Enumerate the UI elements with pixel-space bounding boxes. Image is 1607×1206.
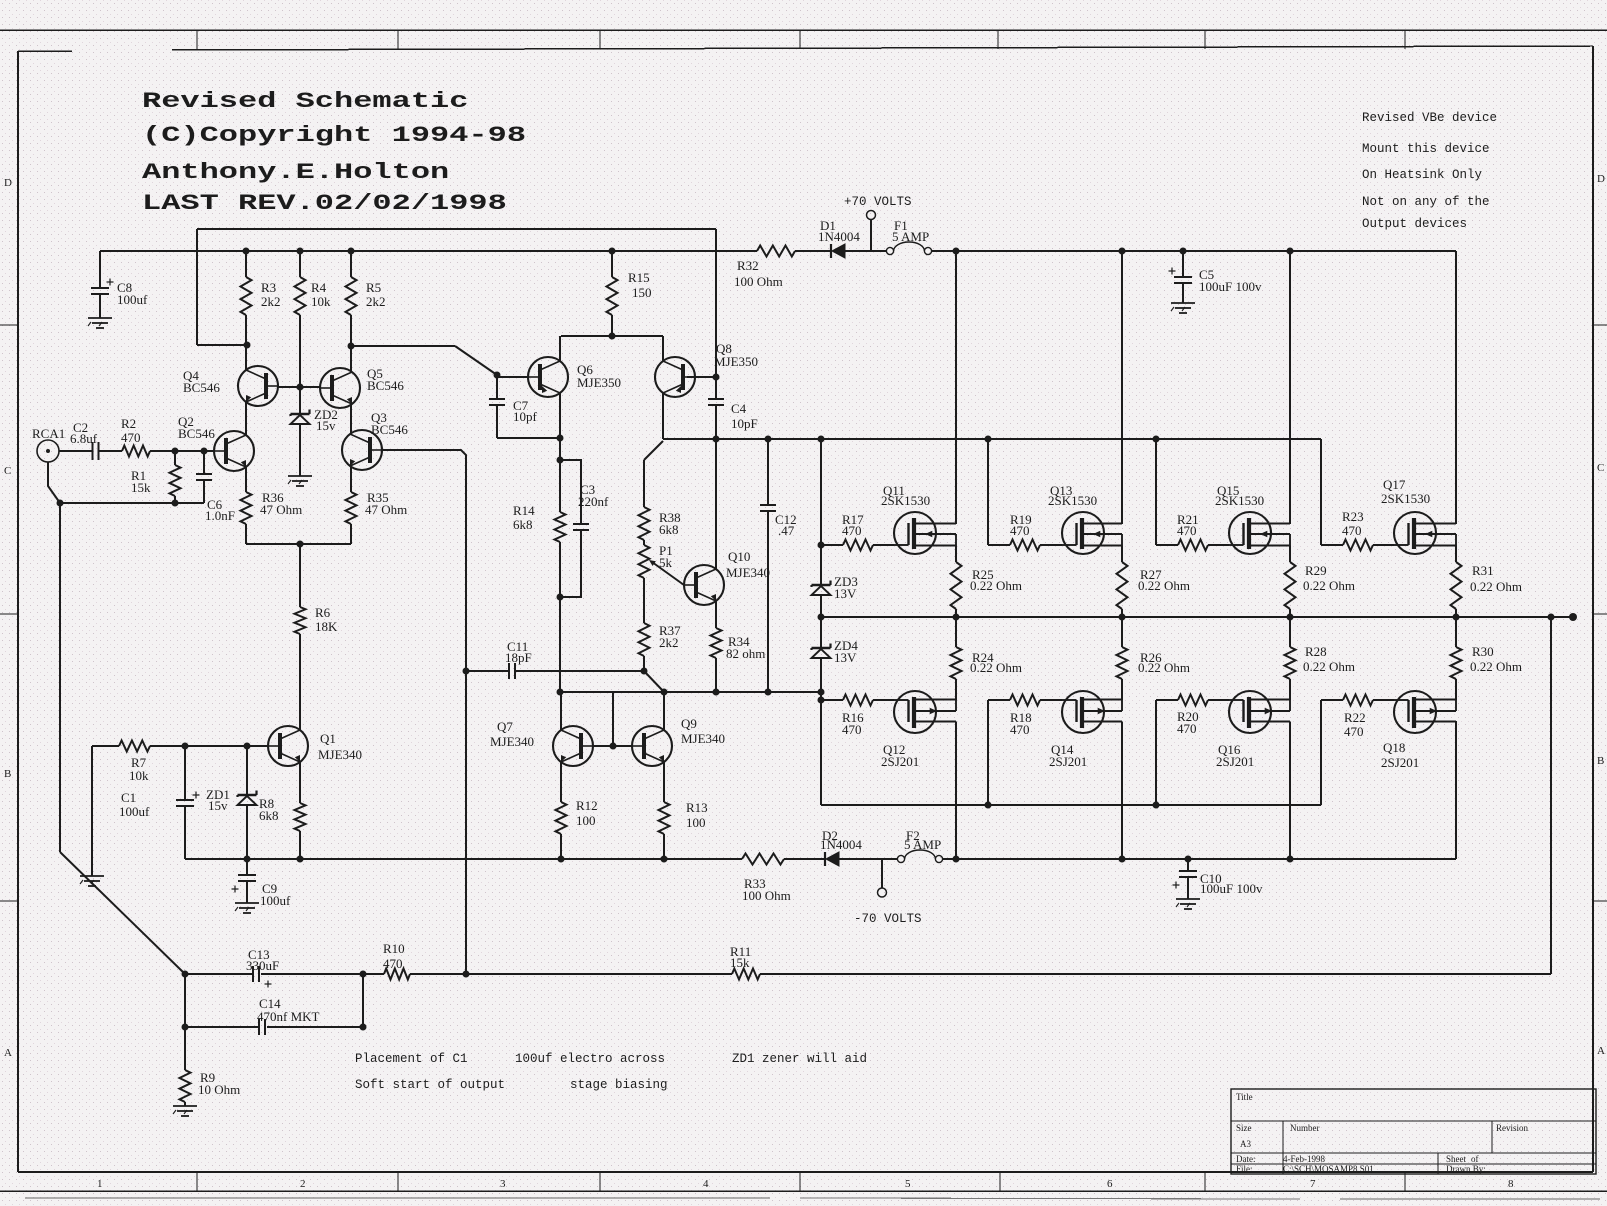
svg-text:470: 470 <box>1177 721 1197 736</box>
svg-text:15k: 15k <box>730 955 750 970</box>
svg-text:R4: R4 <box>311 280 327 295</box>
svg-text:Number: Number <box>1290 1123 1320 1133</box>
svg-text:0.22 Ohm: 0.22 Ohm <box>1470 579 1522 594</box>
svg-text:Output devices: Output devices <box>1362 217 1467 231</box>
svg-text:470: 470 <box>121 430 141 445</box>
svg-text:47 Ohm: 47 Ohm <box>260 502 302 517</box>
svg-text:Sheet: Sheet <box>1446 1154 1466 1164</box>
svg-text:R2: R2 <box>121 416 136 431</box>
svg-text:150: 150 <box>632 285 652 300</box>
svg-text:BC546: BC546 <box>367 378 404 393</box>
svg-text:1N4004: 1N4004 <box>820 837 862 852</box>
svg-text:100 Ohm: 100 Ohm <box>734 274 783 289</box>
svg-text:BC546: BC546 <box>178 426 215 441</box>
svg-text:A: A <box>4 1047 12 1059</box>
svg-text:470: 470 <box>1344 724 1364 739</box>
svg-text:0.22 Ohm: 0.22 Ohm <box>970 578 1022 593</box>
svg-text:82 ohm: 82 ohm <box>726 646 765 661</box>
svg-text:2SK1530: 2SK1530 <box>1048 493 1097 508</box>
svg-text:18K: 18K <box>315 619 338 634</box>
svg-text:7: 7 <box>1310 1178 1316 1190</box>
svg-text:1: 1 <box>97 1178 103 1190</box>
svg-text:1N4004: 1N4004 <box>818 229 860 244</box>
svg-text:6k8: 6k8 <box>513 517 533 532</box>
svg-text:MJE340: MJE340 <box>318 747 362 762</box>
svg-text:470: 470 <box>1177 523 1197 538</box>
svg-text:Anthony.E.Holton: Anthony.E.Holton <box>142 160 449 185</box>
svg-text:5: 5 <box>905 1178 911 1190</box>
svg-text:of: of <box>1471 1154 1479 1164</box>
svg-text:13V: 13V <box>834 650 857 665</box>
svg-text:3: 3 <box>500 1178 506 1190</box>
svg-text:330uF: 330uF <box>246 958 279 973</box>
svg-text:100uf: 100uf <box>260 893 291 908</box>
svg-text:-70 VOLTS: -70 VOLTS <box>854 912 922 926</box>
svg-text:470: 470 <box>842 722 862 737</box>
svg-text:C4: C4 <box>731 401 747 416</box>
svg-text:Q17: Q17 <box>1383 477 1406 492</box>
svg-text:220nf: 220nf <box>578 494 609 509</box>
svg-text:C1: C1 <box>121 790 136 805</box>
svg-text:100uf: 100uf <box>119 804 150 819</box>
svg-text:470: 470 <box>1010 523 1030 538</box>
svg-text:On Heatsink Only: On Heatsink Only <box>1362 168 1483 182</box>
svg-text:2k2: 2k2 <box>261 294 281 309</box>
svg-text:6k8: 6k8 <box>259 808 279 823</box>
svg-text:R6: R6 <box>315 605 331 620</box>
svg-text:R32: R32 <box>737 258 759 273</box>
svg-text:BC546: BC546 <box>183 380 220 395</box>
svg-text:5 AMP: 5 AMP <box>892 229 929 244</box>
svg-text:R31: R31 <box>1472 563 1494 578</box>
svg-text:2SK1530: 2SK1530 <box>881 493 930 508</box>
svg-text:0.22 Ohm: 0.22 Ohm <box>970 660 1022 675</box>
svg-text:100uf: 100uf <box>117 292 148 307</box>
svg-text:B: B <box>1597 755 1604 767</box>
svg-text:2SJ201: 2SJ201 <box>1049 754 1087 769</box>
svg-text:0.22 Ohm: 0.22 Ohm <box>1303 578 1355 593</box>
svg-text:0.22 Ohm: 0.22 Ohm <box>1470 659 1522 674</box>
svg-text:10k: 10k <box>311 294 331 309</box>
svg-text:100: 100 <box>576 813 596 828</box>
svg-text:Q9: Q9 <box>681 716 697 731</box>
svg-text:4: 4 <box>703 1178 709 1190</box>
svg-text:+70 VOLTS: +70 VOLTS <box>844 195 912 209</box>
svg-text:18pF: 18pF <box>505 650 532 665</box>
svg-text:R30: R30 <box>1472 644 1494 659</box>
svg-text:15k: 15k <box>131 480 151 495</box>
svg-text:R28: R28 <box>1305 644 1327 659</box>
svg-text:2SJ201: 2SJ201 <box>1381 755 1419 770</box>
svg-text:2k2: 2k2 <box>366 294 386 309</box>
svg-text:LAST REV.02/02/1998: LAST REV.02/02/1998 <box>142 191 507 216</box>
svg-text:R14: R14 <box>513 503 535 518</box>
svg-text:13V: 13V <box>834 586 857 601</box>
svg-text:15v: 15v <box>208 798 228 813</box>
svg-text:10pF: 10pF <box>731 416 758 431</box>
svg-text:2SJ201: 2SJ201 <box>1216 754 1254 769</box>
svg-text:R22: R22 <box>1344 710 1366 725</box>
svg-text:Q10: Q10 <box>728 549 750 564</box>
svg-text:Soft start of output: Soft start of output <box>355 1078 505 1092</box>
svg-text:15v: 15v <box>316 418 336 433</box>
svg-text:10 Ohm: 10 Ohm <box>198 1082 240 1097</box>
svg-text:D: D <box>1597 173 1605 185</box>
svg-text:Drawn By:: Drawn By: <box>1446 1164 1486 1174</box>
svg-text:10pf: 10pf <box>513 409 538 424</box>
svg-text:5 AMP: 5 AMP <box>904 837 941 852</box>
svg-text:R23: R23 <box>1342 509 1364 524</box>
svg-text:2SK1530: 2SK1530 <box>1381 491 1430 506</box>
svg-text:Title: Title <box>1236 1092 1253 1102</box>
svg-text:BC546: BC546 <box>371 422 408 437</box>
svg-text:stage biasing: stage biasing <box>570 1078 668 1092</box>
svg-text:C: C <box>4 465 11 477</box>
svg-text:R12: R12 <box>576 798 598 813</box>
svg-text:R5: R5 <box>366 280 381 295</box>
svg-text:470: 470 <box>1010 722 1030 737</box>
svg-text:Placement of C1: Placement of C1 <box>355 1052 468 1066</box>
svg-text:Mount this device: Mount this device <box>1362 142 1490 156</box>
svg-text:1.0nF: 1.0nF <box>205 508 235 523</box>
svg-text:Q18: Q18 <box>1383 740 1405 755</box>
svg-text:D: D <box>4 177 12 189</box>
svg-text:100uF 100v: 100uF 100v <box>1200 881 1263 896</box>
svg-text:8: 8 <box>1508 1178 1514 1190</box>
svg-text:47 Ohm: 47 Ohm <box>365 502 407 517</box>
svg-text:MJE340: MJE340 <box>681 731 725 746</box>
svg-text:Revised VBe device: Revised VBe device <box>1362 111 1497 125</box>
svg-text:6: 6 <box>1107 1178 1113 1190</box>
svg-text:100: 100 <box>686 815 706 830</box>
svg-text:100 Ohm: 100 Ohm <box>742 888 791 903</box>
svg-text:.47: .47 <box>778 523 795 538</box>
svg-text:A: A <box>1597 1045 1605 1057</box>
svg-text:R3: R3 <box>261 280 276 295</box>
svg-text:Revised Schematic: Revised Schematic <box>142 89 468 114</box>
svg-text:100uF 100v: 100uF 100v <box>1199 279 1262 294</box>
svg-text:MJE350: MJE350 <box>577 375 621 390</box>
svg-text:0.22 Ohm: 0.22 Ohm <box>1138 660 1190 675</box>
svg-text:File:: File: <box>1236 1164 1253 1174</box>
svg-text:MJE340: MJE340 <box>490 734 534 749</box>
svg-text:R15: R15 <box>628 270 650 285</box>
svg-text:470: 470 <box>1342 523 1362 538</box>
svg-text:Q7: Q7 <box>497 719 513 734</box>
svg-text:6.8uf: 6.8uf <box>70 431 98 446</box>
svg-text:2SK1530: 2SK1530 <box>1215 493 1264 508</box>
svg-text:R13: R13 <box>686 800 708 815</box>
svg-text:R10: R10 <box>383 941 405 956</box>
svg-text:C: C <box>1597 462 1604 474</box>
svg-text:470: 470 <box>842 523 862 538</box>
svg-text:MJE350: MJE350 <box>714 354 758 369</box>
svg-text:470nf MKT: 470nf MKT <box>257 1009 320 1024</box>
svg-text:ZD1 zener will aid: ZD1 zener will aid <box>732 1052 867 1066</box>
svg-text:Date:: Date: <box>1236 1154 1256 1164</box>
svg-text:2SJ201: 2SJ201 <box>881 754 919 769</box>
svg-text:(C)Copyright 1994-98: (C)Copyright 1994-98 <box>142 123 526 148</box>
svg-text:B: B <box>4 768 11 780</box>
svg-text:2k2: 2k2 <box>659 635 679 650</box>
svg-text:5k: 5k <box>659 555 673 570</box>
svg-text:0.22 Ohm: 0.22 Ohm <box>1138 578 1190 593</box>
svg-text:4-Feb-1998: 4-Feb-1998 <box>1283 1154 1325 1164</box>
svg-text:MJE340: MJE340 <box>726 565 770 580</box>
svg-text:100uf electro across: 100uf electro across <box>515 1052 665 1066</box>
svg-text:10k: 10k <box>129 768 149 783</box>
svg-text:0.22 Ohm: 0.22 Ohm <box>1303 659 1355 674</box>
svg-text:C:\SCH\MOSAMP8.S01: C:\SCH\MOSAMP8.S01 <box>1283 1164 1374 1174</box>
svg-text:Revision: Revision <box>1496 1123 1529 1133</box>
svg-text:2: 2 <box>300 1178 306 1190</box>
svg-text:R29: R29 <box>1305 563 1327 578</box>
svg-text:A3: A3 <box>1240 1139 1251 1149</box>
svg-text:470: 470 <box>383 956 403 971</box>
svg-text:RCA1: RCA1 <box>32 426 65 441</box>
svg-text:Q1: Q1 <box>320 731 336 746</box>
svg-text:Size: Size <box>1236 1123 1252 1133</box>
svg-text:6k8: 6k8 <box>659 522 679 537</box>
svg-text:Not on any of the: Not on any of the <box>1362 195 1490 209</box>
